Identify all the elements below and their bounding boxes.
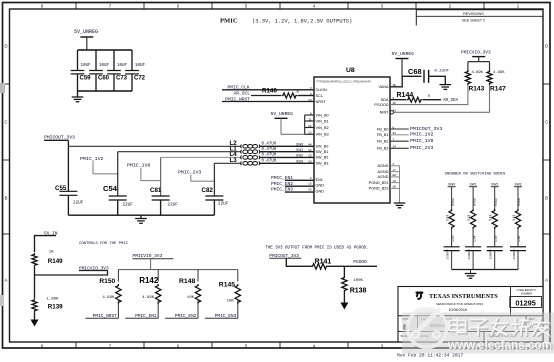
svg-text:R143: R143 bbox=[469, 86, 485, 93]
resistor R148 10K bbox=[197, 270, 199, 282]
resistor R145 10K bbox=[237, 270, 239, 282]
svg-text:C68: C68 bbox=[408, 67, 422, 76]
wire R143 to PGOOD bbox=[390, 85, 468, 105]
wire R300 to C94 bbox=[472, 229, 474, 247]
wire R141 to PGOOD bbox=[328, 265, 377, 267]
svg-text:R139: R139 bbox=[48, 304, 63, 311]
svg-text:C93: C93 bbox=[451, 235, 455, 241]
svg-text:1K: 1K bbox=[49, 250, 54, 254]
svg-text:AR_SCL: AR_SCL bbox=[233, 90, 250, 96]
svg-text:R149: R149 bbox=[48, 258, 63, 265]
svg-text:PMIC_2V3: PMIC_2V3 bbox=[410, 145, 434, 151]
svg-text:10UF: 10UF bbox=[81, 64, 92, 68]
svg-text:R150: R150 bbox=[99, 278, 115, 285]
svg-text:C94: C94 bbox=[472, 235, 476, 241]
svg-text:SW2: SW2 bbox=[491, 182, 498, 186]
resistor R143 4.99K bbox=[467, 62, 469, 71]
ground AGND bbox=[394, 202, 406, 204]
svg-text:0.22UF: 0.22UF bbox=[435, 70, 450, 74]
capacitor C72 10UF bbox=[131, 50, 133, 71]
svg-text:CODE IDENTITY: CODE IDENTITY bbox=[516, 288, 536, 292]
svg-text:A: A bbox=[545, 278, 548, 283]
svg-text:REVISIONS: REVISIONS bbox=[463, 12, 484, 16]
svg-text:22UF: 22UF bbox=[218, 202, 229, 207]
wire VIN bus vertical bbox=[304, 115, 306, 134]
svg-text:10K: 10K bbox=[187, 296, 195, 300]
svg-text:www.elecfans.com: www.elecfans.com bbox=[447, 338, 552, 352]
svg-text:R146: R146 bbox=[262, 87, 277, 94]
svg-text:R142: R142 bbox=[139, 276, 159, 285]
svg-text:CLKIN: CLKIN bbox=[316, 88, 327, 92]
wire R142 to PMIC_EN1 bbox=[157, 300, 159, 319]
wire cap bank top rail bbox=[78, 49, 133, 51]
svg-text:26: 26 bbox=[308, 124, 312, 128]
wire output ground rail bbox=[68, 214, 214, 216]
svg-text:3300PF: 3300PF bbox=[489, 249, 493, 260]
svg-text:22: 22 bbox=[308, 131, 312, 135]
svg-text:FB_B0: FB_B0 bbox=[377, 127, 389, 131]
capacitor C60 10UF bbox=[95, 50, 97, 71]
svg-text:PMIC_1V2: PMIC_1V2 bbox=[80, 156, 104, 162]
capacitor C59 10UF bbox=[77, 50, 79, 71]
wire R302 to C93 bbox=[451, 229, 453, 247]
wire FB PMIC_2V3 bbox=[390, 147, 409, 149]
capacitor C73 10UF bbox=[113, 50, 115, 71]
svg-text:3.43: 3.43 bbox=[489, 215, 493, 221]
svg-text:23: 23 bbox=[308, 188, 312, 192]
svg-text:C72: C72 bbox=[134, 76, 146, 82]
svg-text:D: D bbox=[4, 44, 7, 49]
svg-text:SW_B0: SW_B0 bbox=[316, 145, 329, 149]
svg-text:SW1: SW1 bbox=[296, 148, 303, 152]
capacitor C82 22UF bbox=[213, 163, 215, 196]
wire pull bank rail bbox=[118, 269, 237, 271]
ground R138 arrow bbox=[340, 303, 348, 310]
svg-text:PMIC_1V8: PMIC_1V8 bbox=[410, 138, 434, 144]
capacitor C81 22UF bbox=[160, 157, 162, 196]
svg-text:0: 0 bbox=[297, 91, 299, 95]
svg-text:CONTROLS FOR THE PMIC: CONTROLS FOR THE PMIC bbox=[79, 242, 129, 246]
svg-text:PMICOUT_3V3: PMICOUT_3V3 bbox=[410, 126, 442, 132]
svg-text:THE 3V3 OUTPUT FROM PMIC IS US: THE 3V3 OUTPUT FROM PMIC IS USED AS PGOO… bbox=[265, 247, 368, 251]
svg-text:VIN_B2: VIN_B2 bbox=[316, 126, 329, 130]
svg-text:R147: R147 bbox=[490, 86, 506, 93]
svg-text:VIN_B0: VIN_B0 bbox=[316, 113, 329, 117]
wire pullup top rail bbox=[468, 61, 490, 63]
svg-text:PGND_B01: PGND_B01 bbox=[369, 181, 389, 185]
wire cap bank bottom rail bbox=[78, 90, 133, 92]
wire R139 to ground bbox=[34, 312, 36, 319]
svg-text:VIN_B1: VIN_B1 bbox=[316, 119, 329, 123]
revisions box bbox=[416, 9, 542, 11]
svg-text:PMICVIO_3V3: PMICVIO_3V3 bbox=[79, 265, 109, 271]
wire AGND/PGND bus bbox=[390, 165, 400, 167]
svg-text:PMIC_1V8: PMIC_1V8 bbox=[127, 162, 151, 168]
svg-text:10UF: 10UF bbox=[135, 64, 146, 68]
svg-text:FB_B3: FB_B3 bbox=[377, 147, 389, 151]
svg-text:FB_B1: FB_B1 bbox=[377, 133, 389, 137]
wire PMIC_EN2 bbox=[285, 185, 314, 187]
node PMICVIO_3V3 tap bbox=[35, 271, 108, 276]
wire PMIC_EN3 bbox=[285, 191, 314, 193]
svg-text:AGND: AGND bbox=[378, 175, 389, 179]
svg-text:22UF: 22UF bbox=[168, 203, 179, 208]
capacitor C55 22UF bbox=[67, 146, 69, 191]
svg-text:10/06/2016: 10/06/2016 bbox=[449, 308, 467, 312]
resistor R142 4.99K bbox=[157, 270, 159, 282]
svg-text:22UF: 22UF bbox=[123, 203, 134, 208]
svg-text:01295: 01295 bbox=[515, 299, 536, 308]
svg-text:TEXAS INSTRUMENTS: TEXAS INSTRUMENTS bbox=[429, 293, 498, 300]
wire L3 to pin bbox=[259, 162, 314, 164]
svg-text:SW_B3: SW_B3 bbox=[316, 162, 329, 166]
svg-text:NINT: NINT bbox=[380, 111, 390, 115]
svg-text:PGOOD: PGOOD bbox=[353, 259, 367, 265]
wire R304 to C95 bbox=[494, 229, 496, 247]
resistor R147 4.99K bbox=[489, 62, 491, 71]
svg-text:10K: 10K bbox=[227, 299, 235, 303]
ground snubber bbox=[470, 270, 472, 274]
svg-text:0: 0 bbox=[428, 95, 430, 99]
svg-text:C96: C96 bbox=[517, 235, 521, 241]
svg-text:SW1: SW1 bbox=[470, 182, 477, 186]
svg-text:5V_UNREG: 5V_UNREG bbox=[74, 29, 98, 35]
svg-text:11: 11 bbox=[308, 117, 311, 121]
svg-text:C73: C73 bbox=[116, 76, 128, 82]
wire PMICOUT_3V3 drop bbox=[67, 140, 69, 146]
svg-text:A: A bbox=[5, 278, 8, 283]
svg-text:100K: 100K bbox=[353, 279, 363, 283]
resistor R138 100K bbox=[343, 266, 345, 276]
svg-text:FB_B2: FB_B2 bbox=[377, 140, 389, 144]
svg-text:NUMBER: NUMBER bbox=[521, 292, 532, 296]
svg-text:5V_UNREG: 5V_UNREG bbox=[271, 111, 294, 117]
wire PMIC_EN1 bbox=[285, 179, 314, 181]
wire C68 to ground bbox=[429, 76, 446, 84]
svg-text:SCL: SCL bbox=[316, 94, 323, 98]
wire SW1 rail bbox=[118, 151, 242, 153]
wire AR_SCL to R146 bbox=[251, 95, 281, 97]
svg-text:5V_UNREG: 5V_UNREG bbox=[392, 51, 415, 57]
IC U8 PMIC bbox=[314, 77, 390, 203]
svg-text:PMICVIO_3V3: PMICVIO_3V3 bbox=[461, 50, 491, 56]
wire FB PMIC_1V8 bbox=[390, 140, 409, 142]
wire VIN_B3 stub pin 22 bbox=[305, 133, 314, 135]
svg-text:R304: R304 bbox=[494, 198, 498, 206]
wire SW2 rail bbox=[161, 156, 242, 158]
wire L1 to pin bbox=[259, 151, 314, 153]
resistor R150 4.99K bbox=[117, 270, 119, 282]
svg-text:VANA: VANA bbox=[378, 85, 389, 89]
svg-text:GND: GND bbox=[316, 184, 325, 188]
svg-text:B: B bbox=[545, 196, 548, 201]
svg-text:4.99K: 4.99K bbox=[472, 71, 484, 75]
svg-text:C: C bbox=[545, 120, 548, 125]
svg-text:C81: C81 bbox=[150, 187, 162, 194]
svg-text:R144: R144 bbox=[397, 92, 414, 99]
svg-text:R306: R306 bbox=[517, 198, 521, 206]
wire R148 to PMIC_EN2 bbox=[197, 300, 199, 319]
svg-text:D: D bbox=[545, 44, 548, 49]
TI logo bbox=[416, 292, 424, 300]
ground C68 bbox=[440, 84, 452, 86]
wire R150 to PMIC_NRST bbox=[117, 300, 119, 319]
wire R144 to AR_SDA bbox=[423, 99, 441, 101]
svg-text:SEMICONDUCTOR OPERATIONS: SEMICONDUCTOR OPERATIONS bbox=[436, 302, 483, 306]
wire 5V_UNREG stem to VIN bus bbox=[280, 118, 282, 134]
svg-text:NRST: NRST bbox=[316, 100, 327, 104]
svg-text:22UF: 22UF bbox=[73, 201, 84, 206]
wire R146 to pin 9 bbox=[298, 95, 314, 97]
wire R145 to PMIC_EN3 bbox=[237, 300, 239, 319]
svg-text:VIN_B3: VIN_B3 bbox=[316, 133, 329, 137]
svg-text:3300PF: 3300PF bbox=[512, 249, 516, 260]
svg-text:4.99K: 4.99K bbox=[142, 296, 155, 300]
wire R147 to NINT bbox=[394, 85, 490, 112]
svg-text:SNUBBER OR SWITCHING NODES: SNUBBER OR SWITCHING NODES bbox=[445, 173, 506, 177]
wire FB PMIC_1V2 bbox=[390, 134, 409, 136]
svg-text:C54: C54 bbox=[103, 184, 118, 193]
wire R138 to ground bbox=[343, 292, 345, 303]
wire SW0 branch bbox=[451, 187, 453, 209]
svg-text:PGOOD: PGOOD bbox=[374, 103, 388, 107]
svg-text:3.43: 3.43 bbox=[467, 215, 471, 221]
svg-text:3.43: 3.43 bbox=[445, 215, 449, 221]
svg-text:R138: R138 bbox=[350, 288, 367, 295]
svg-text:4.99K: 4.99K bbox=[493, 71, 505, 75]
svg-text:AR_SDA: AR_SDA bbox=[443, 99, 459, 103]
wire VIN_B0 stub pin 8 bbox=[305, 114, 314, 116]
wire snubber ground rail bbox=[452, 269, 518, 271]
wire PMICOUT_3V3 to R141 bbox=[286, 258, 311, 266]
svg-text:EN1: EN1 bbox=[316, 178, 323, 182]
svg-text:(3.3V, 1.2V, 1.8V,2.5V OUTPUTS: (3.3V, 1.2V, 1.8V,2.5V OUTPUTS) bbox=[252, 18, 352, 24]
svg-text:SW_B1: SW_B1 bbox=[316, 150, 329, 154]
svg-text:SDA: SDA bbox=[381, 98, 389, 102]
wire L2 to pin bbox=[259, 145, 314, 147]
svg-text:SW0: SW0 bbox=[296, 143, 303, 147]
svg-text:10UF: 10UF bbox=[99, 64, 110, 68]
svg-text:GND: GND bbox=[316, 190, 325, 194]
svg-text:15: 15 bbox=[308, 182, 312, 186]
svg-text:SW_B2: SW_B2 bbox=[316, 156, 329, 160]
svg-text:AGND: AGND bbox=[378, 164, 389, 168]
ground cap bank bbox=[77, 91, 79, 97]
svg-text:C: C bbox=[4, 120, 7, 125]
svg-text:3.43: 3.43 bbox=[512, 215, 516, 221]
wire VANA pin to C68 bbox=[390, 76, 422, 87]
svg-text:U8: U8 bbox=[346, 67, 355, 74]
ground output caps bbox=[140, 215, 142, 218]
wire L4 to pin bbox=[259, 156, 314, 158]
wire R149 to R139 bbox=[34, 267, 36, 298]
svg-text:3300PF: 3300PF bbox=[445, 249, 449, 260]
ground R139 arrow bbox=[31, 320, 39, 327]
svg-text:C60: C60 bbox=[98, 76, 110, 82]
svg-text:SW3: SW3 bbox=[296, 160, 303, 164]
svg-text:3300PF: 3300PF bbox=[467, 249, 471, 260]
pin NINT bubble bbox=[390, 111, 393, 114]
wire SW0 rail bbox=[68, 145, 241, 147]
wire SW2 branch bbox=[494, 187, 496, 209]
svg-text:B: B bbox=[5, 196, 8, 201]
svg-text:C95: C95 bbox=[494, 235, 498, 241]
svg-text:R300: R300 bbox=[472, 198, 476, 206]
svg-text:SEE SHEET 2: SEE SHEET 2 bbox=[462, 19, 485, 23]
svg-text:C59: C59 bbox=[80, 76, 92, 82]
wire SW3 branch bbox=[517, 187, 519, 209]
wire VIN_B1 stub pin 11 bbox=[305, 120, 314, 122]
wire SW1 branch bbox=[472, 187, 474, 209]
svg-text:PTPS65916RNFRQ1_ES(3.2_PRELIMI: PTPS65916RNFRQ1_ES(3.2_PRELIMINARY bbox=[317, 80, 372, 84]
svg-text:4.99K: 4.99K bbox=[102, 296, 115, 300]
svg-text:PMIC: PMIC bbox=[220, 18, 238, 25]
wire PMIC_CLK to pin 3 bbox=[222, 89, 314, 91]
svg-text:PMIC_1V2: PMIC_1V2 bbox=[410, 132, 434, 138]
svg-text:SW3: SW3 bbox=[515, 182, 522, 186]
svg-text:1.96K: 1.96K bbox=[46, 297, 59, 301]
svg-text:PGND_B23: PGND_B23 bbox=[369, 187, 389, 191]
svg-text:R145: R145 bbox=[219, 282, 235, 289]
svg-text:20: 20 bbox=[308, 98, 312, 102]
wire VIN_B2 stub pin 26 bbox=[305, 127, 314, 129]
title block bbox=[398, 287, 543, 342]
svg-text:AGND: AGND bbox=[378, 170, 389, 174]
capacitor C54 22UF bbox=[117, 152, 119, 196]
watermark elecfans bbox=[0, 0, 1, 1]
wire R306 to C96 bbox=[517, 229, 519, 247]
svg-text:SW0: SW0 bbox=[448, 182, 455, 186]
svg-text:C82: C82 bbox=[202, 187, 214, 194]
wire FB PMICOUT_3V3 bbox=[390, 128, 409, 130]
svg-text:R302: R302 bbox=[451, 198, 455, 206]
svg-text:SW2: SW2 bbox=[296, 154, 303, 158]
svg-text:R148: R148 bbox=[179, 278, 195, 285]
svg-text:L3: L3 bbox=[230, 157, 238, 164]
svg-text:10UF: 10UF bbox=[117, 64, 128, 68]
wire PMIC_NRST to pin 20 bbox=[222, 101, 314, 103]
wire SW3 rail bbox=[214, 162, 241, 164]
svg-text:PMIC_2V3: PMIC_2V3 bbox=[178, 169, 202, 175]
